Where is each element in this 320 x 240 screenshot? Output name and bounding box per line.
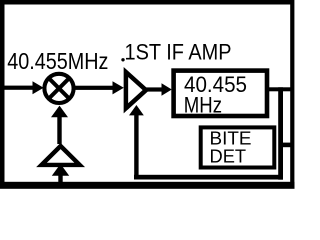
svg-text:DET: DET: [210, 145, 247, 166]
wire oscillator input from bottom: [58, 175, 62, 183]
arrowhead into filter box: [162, 83, 172, 96]
amplifier A1 triangle: [126, 72, 146, 108]
border frame bottom: [0, 182, 295, 189]
mixer X diagonal 1: [49, 78, 70, 99]
wire feedback bottom horizontal: [134, 175, 283, 180]
mixer X diagonal 2: [49, 78, 70, 99]
oscillator triangle: [42, 146, 80, 165]
mixer M1 circle: [44, 74, 73, 103]
BITE DET box: [201, 127, 275, 167]
arrowhead into mixer: [33, 81, 44, 94]
wire tick to frame at BITE level: [280, 143, 291, 148]
wire feedback vertical right: [278, 87, 283, 179]
border frame top: [0, 0, 293, 5]
border frame left: [0, 0, 5, 189]
arrowhead into mixer bottom: [51, 106, 68, 118]
svg-text:MHz: MHz: [184, 92, 222, 117]
arrowhead into oscillator: [52, 164, 69, 176]
wire feedback vertical left: [134, 114, 138, 175]
dot before 1ST: [121, 58, 124, 61]
arrowhead into amp: [113, 81, 124, 94]
wire amp to filter: [146, 87, 163, 91]
wire LO vertical to mixer: [57, 116, 61, 144]
svg-text:1ST IF AMP: 1ST IF AMP: [125, 40, 232, 65]
wire filter output to right edge: [267, 87, 293, 91]
border frame right: [290, 0, 294, 189]
arrowhead AGC into amp: [129, 105, 144, 115]
svg-text:40.455MHz: 40.455MHz: [7, 48, 108, 74]
wire input from left edge: [5, 86, 34, 90]
filter FL1 box: [174, 71, 267, 116]
wire mixer to amp: [74, 86, 113, 90]
